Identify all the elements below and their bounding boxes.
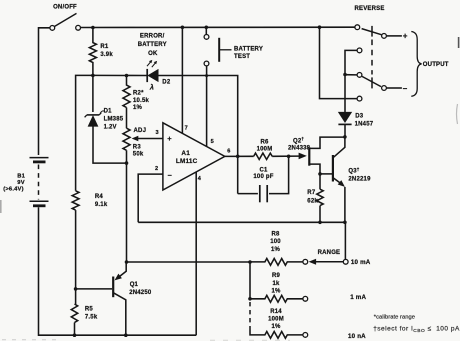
node xyxy=(73,333,77,337)
svg-text:+: + xyxy=(403,32,408,41)
wire xyxy=(74,323,76,336)
svg-text:BATTERY: BATTERY xyxy=(234,46,263,52)
svg-text:7.5k: 7.5k xyxy=(85,314,98,320)
wire xyxy=(38,165,40,200)
artifact xyxy=(2,339,60,341)
label D1 leader xyxy=(100,111,104,113)
node xyxy=(318,25,322,29)
svg-text:R4: R4 xyxy=(95,194,104,200)
svg-text:D1: D1 xyxy=(104,108,113,114)
svg-text:*calibrate range: *calibrate range xyxy=(374,315,415,321)
LED D2 xyxy=(146,69,148,82)
node xyxy=(91,26,95,30)
node xyxy=(343,221,347,225)
switch S1 ON/OFF xyxy=(50,26,55,31)
wire xyxy=(81,26,355,28)
node xyxy=(318,221,322,225)
svg-text:100 pF: 100 pF xyxy=(253,174,273,180)
node xyxy=(124,333,128,337)
svg-text:3.9k: 3.9k xyxy=(100,52,113,58)
resistor R4 xyxy=(72,191,79,210)
svg-text:10.5k: 10.5k xyxy=(133,98,149,104)
resistor R6 xyxy=(254,153,273,159)
svg-text:R1: R1 xyxy=(100,44,109,50)
switch S3 linkage xyxy=(371,40,373,75)
svg-text:1k: 1k xyxy=(272,281,280,287)
wire pin4 xyxy=(195,172,197,335)
svg-text:D2: D2 xyxy=(162,80,171,86)
svg-text:B1: B1 xyxy=(17,173,25,179)
wire xyxy=(39,207,197,335)
artifact xyxy=(210,339,290,341)
wire xyxy=(74,210,76,304)
svg-text:1.2V: 1.2V xyxy=(104,125,117,131)
transistor Q1 2N4250 xyxy=(112,277,114,298)
svg-text:ADJ: ADJ xyxy=(134,128,147,134)
svg-text:10 mA: 10 mA xyxy=(351,259,371,266)
svg-text:2N4250: 2N4250 xyxy=(129,290,152,296)
capacitor C1 xyxy=(238,193,258,195)
svg-text:10 nA: 10 nA xyxy=(348,333,366,340)
svg-text:R3: R3 xyxy=(133,144,142,150)
node xyxy=(287,155,291,159)
wire pin5 xyxy=(206,66,208,147)
wire xyxy=(345,74,357,76)
wire xyxy=(76,75,93,190)
wire xyxy=(272,155,299,157)
svg-text:RANGE: RANGE xyxy=(318,250,341,256)
svg-text:2N2219: 2N2219 xyxy=(348,176,371,182)
svg-text:7: 7 xyxy=(185,125,188,131)
wire xyxy=(93,126,127,163)
svg-text:9V: 9V xyxy=(17,180,25,186)
svg-text:1N457: 1N457 xyxy=(355,122,374,128)
node xyxy=(205,26,209,30)
svg-text:OK: OK xyxy=(148,51,158,57)
svg-text:R9: R9 xyxy=(272,273,281,279)
wire xyxy=(387,87,402,89)
node xyxy=(91,74,95,78)
terminal 1mA xyxy=(303,296,308,301)
node xyxy=(125,260,129,264)
wire pin2 xyxy=(138,174,163,222)
svg-text:62k: 62k xyxy=(307,198,318,204)
wire xyxy=(92,75,94,112)
svg-text:2N4338: 2N4338 xyxy=(288,145,311,151)
resistor R8 xyxy=(250,259,303,266)
svg-text:+: + xyxy=(167,134,172,143)
wire xyxy=(344,75,346,113)
resistor R9 xyxy=(250,295,303,302)
transistor Q2 2N4338 xyxy=(299,153,307,160)
svg-text:50k: 50k xyxy=(133,151,144,157)
diode D1 zener xyxy=(87,114,99,116)
svg-text:R2*: R2* xyxy=(133,91,144,97)
wire xyxy=(344,124,346,136)
svg-text:ERROR/: ERROR/ xyxy=(140,33,165,39)
svg-text:1%: 1% xyxy=(271,324,281,330)
wire xyxy=(319,206,321,223)
node xyxy=(205,74,208,77)
svg-text:3: 3 xyxy=(156,130,159,136)
terminal 10mA xyxy=(303,259,308,264)
svg-text:BATTERY: BATTERY xyxy=(138,42,167,48)
wire xyxy=(387,35,402,37)
switch S3 throw xyxy=(357,96,362,101)
svg-text:OUTPUT: OUTPUT xyxy=(423,62,449,68)
wire xyxy=(158,76,238,194)
artifact xyxy=(458,37,460,48)
pot R3 wiper xyxy=(137,138,163,140)
resistor R1 xyxy=(89,28,96,76)
wire xyxy=(126,150,128,262)
svg-text:(>6.4V): (>6.4V) xyxy=(3,186,24,192)
svg-text:6: 6 xyxy=(227,148,230,154)
battery B1 plate xyxy=(33,160,46,163)
node xyxy=(125,161,129,165)
wire xyxy=(249,262,251,299)
svg-text:1 mA: 1 mA xyxy=(350,294,366,301)
switch S2 battery test xyxy=(204,35,209,40)
svg-text:TEST: TEST xyxy=(234,54,250,60)
artifact xyxy=(0,200,2,213)
node xyxy=(318,172,322,176)
node xyxy=(248,297,252,301)
battery B1 plate xyxy=(30,200,49,202)
svg-text:1%: 1% xyxy=(133,105,143,111)
svg-text:LM385: LM385 xyxy=(104,117,124,123)
wire xyxy=(205,27,207,34)
resistor R7 xyxy=(317,189,323,205)
battery B1 bottom plate xyxy=(33,204,46,207)
svg-text:C1: C1 xyxy=(259,168,268,174)
wire xyxy=(39,28,51,155)
resistor R2 xyxy=(123,76,130,108)
wire xyxy=(345,50,357,74)
wire xyxy=(126,108,128,129)
svg-text:R6: R6 xyxy=(260,140,269,146)
svg-text:R8: R8 xyxy=(271,231,280,237)
svg-text:2: 2 xyxy=(155,166,158,172)
svg-text:1%: 1% xyxy=(271,247,281,253)
wire xyxy=(76,288,113,290)
node xyxy=(343,135,347,139)
wire pin7 xyxy=(181,27,183,133)
svg-text:ON/OFF: ON/OFF xyxy=(53,5,77,11)
svg-text:R7: R7 xyxy=(307,190,316,196)
node xyxy=(181,26,185,30)
node xyxy=(248,260,252,264)
switch S3 reverse pole1 xyxy=(355,25,360,30)
svg-text:–: – xyxy=(403,84,408,93)
svg-text:LM11C: LM11C xyxy=(176,158,198,165)
svg-text:1%: 1% xyxy=(271,289,281,295)
range wiper xyxy=(343,259,348,264)
svg-text:R5: R5 xyxy=(85,307,94,313)
switch S3 throw xyxy=(357,48,362,53)
artifact xyxy=(457,104,458,124)
switch S3 reverse pole2 xyxy=(357,73,362,78)
potentiometer R3 xyxy=(123,128,130,150)
svg-text:A1: A1 xyxy=(181,150,190,157)
op-amp A1 LM11C xyxy=(163,123,225,190)
resistor R5 xyxy=(71,304,77,323)
wire dashed xyxy=(249,302,251,330)
wire xyxy=(320,27,358,98)
wire node A line xyxy=(127,261,251,263)
svg-text:R14: R14 xyxy=(270,309,282,315)
terminal 10nA xyxy=(303,333,308,338)
wire pin6 xyxy=(225,155,254,157)
resistor R14 xyxy=(250,330,303,339)
output brace xyxy=(411,32,421,97)
svg-text:9.1k: 9.1k xyxy=(95,202,108,208)
svg-text:100M: 100M xyxy=(268,317,284,323)
svg-text:D3: D3 xyxy=(355,113,364,119)
diode D3 1N457 xyxy=(338,112,351,122)
node xyxy=(74,287,78,291)
node xyxy=(343,73,347,77)
svg-text:5: 5 xyxy=(211,139,214,145)
svg-text:λ: λ xyxy=(149,82,154,91)
svg-text:100: 100 xyxy=(270,239,281,245)
wire feedback rail xyxy=(138,222,345,259)
svg-text:–: – xyxy=(168,171,172,180)
wire xyxy=(93,74,147,76)
node xyxy=(236,155,240,159)
svg-text:REVERSE: REVERSE xyxy=(354,6,384,12)
svg-text:Q1: Q1 xyxy=(130,282,139,288)
LED D2 light arrows xyxy=(147,61,151,66)
transistor Q3 2N2219 xyxy=(320,173,333,175)
svg-text:100M: 100M xyxy=(257,147,273,153)
node xyxy=(125,74,129,78)
battery B1 top plate xyxy=(30,157,49,159)
